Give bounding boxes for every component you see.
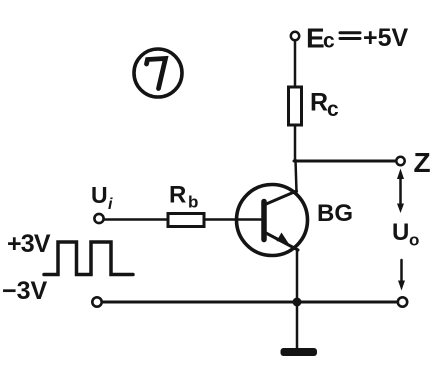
- wire Ec to Rc: [294, 41, 297, 88]
- square wave symbol: [44, 242, 133, 275]
- ground: [281, 348, 318, 356]
- terminal Ui: [94, 214, 103, 223]
- resistor Rb: [168, 214, 204, 227]
- svg-text:o: o: [409, 231, 419, 250]
- wire Rb to base: [204, 218, 262, 221]
- svg-text:c: c: [327, 98, 339, 121]
- label Rb: [169, 182, 198, 212]
- svg-text:i: i: [108, 196, 113, 213]
- svg-text:+3V: +3V: [7, 230, 51, 258]
- arrow Uo bottom: [398, 260, 405, 291]
- svg-text:U: U: [91, 182, 108, 208]
- figure number 7: [134, 49, 182, 97]
- terminal Z: [396, 157, 404, 165]
- arrow Uo top (double headed): [397, 169, 404, 214]
- terminal bottom left: [92, 297, 101, 306]
- label Ui: [91, 182, 113, 213]
- wire Rc to collector node: [294, 125, 297, 161]
- resistor Rc: [289, 87, 302, 125]
- junction emitter/ground: [293, 298, 302, 307]
- svg-text:E: E: [306, 23, 325, 54]
- svg-text:Z: Z: [414, 147, 431, 178]
- svg-text:BG: BG: [317, 200, 353, 227]
- wire Ui to Rb: [104, 218, 168, 221]
- transistor BG: [237, 185, 308, 256]
- wire emitter down: [296, 250, 299, 298]
- svg-text:U: U: [392, 219, 409, 246]
- label Uo: [392, 219, 419, 250]
- terminal bottom right: [398, 297, 407, 306]
- equals sign: [340, 33, 360, 39]
- svg-text:c: c: [323, 30, 335, 53]
- label Rc: [310, 89, 339, 122]
- wire collector node to Z: [294, 160, 396, 163]
- svg-text:R: R: [310, 89, 328, 117]
- svg-text:−3V: −3V: [2, 277, 48, 305]
- wire junction to ground: [296, 307, 299, 349]
- label Ec = +5V: [306, 23, 409, 54]
- svg-text:b: b: [188, 193, 198, 212]
- terminal Ec: [291, 32, 299, 40]
- bottom wire: [103, 301, 398, 304]
- wire node down to collector: [296, 160, 297, 192]
- svg-text:+5V: +5V: [363, 24, 409, 52]
- svg-text:R: R: [169, 182, 186, 209]
